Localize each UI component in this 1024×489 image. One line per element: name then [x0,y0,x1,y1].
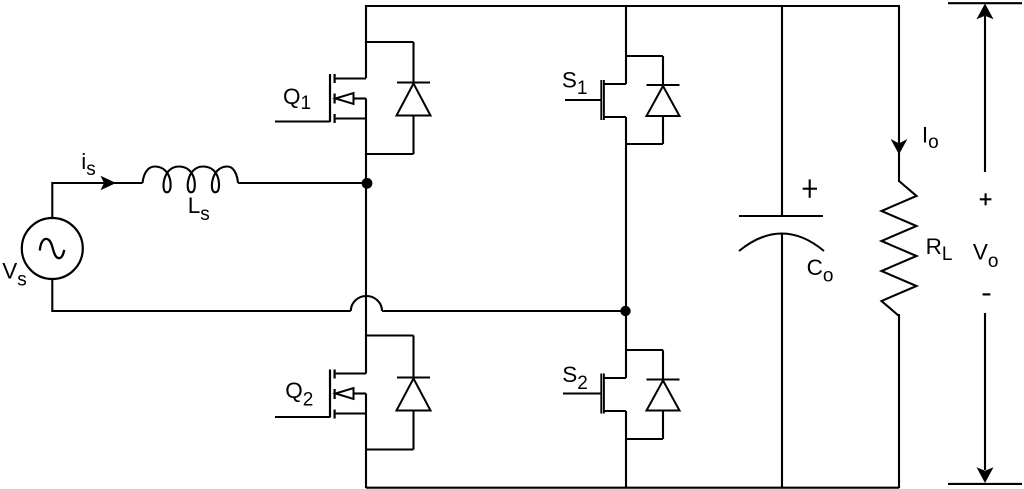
svg-text:Ls: Ls [188,193,210,225]
wire Q1 diode bottom branch [366,153,414,155]
wire Q2 source vertical [365,394,367,489]
wire inductor to node A [238,182,367,184]
wire bottom rail [366,487,899,489]
wire Q1 source vertical [365,99,367,184]
label + (Vo) [980,193,992,205]
diode D1 (Q1 body diode) [397,42,431,154]
wire RL top lead [898,5,900,182]
transistor S1 [565,80,626,120]
transistor Q2 [275,370,366,419]
wire Vs bottom lead [52,279,351,311]
transistor S2 [563,374,626,414]
svg-text:Q2: Q2 [285,378,313,411]
wire Q2 diode bottom branch [366,448,414,450]
wire hop over Q-leg [351,296,382,311]
wire S2 source vertical [625,411,627,488]
svg-text:Vs: Vs [2,259,27,291]
inductor Ls [143,167,239,193]
diode D4 (S2 body diode) [647,350,680,439]
wire Co top lead [781,5,783,216]
wire S2 diode top branch [626,349,663,351]
diode D2 (Q2 body diode) [397,336,431,450]
wire node B to S2 [625,311,627,378]
wire Q1 diode top branch [366,41,414,43]
wire S1 diode bottom branch [626,143,663,145]
diode D3 (S1 body diode) [647,56,680,144]
wire S1 source to node B [625,117,627,311]
AC source Vs [22,218,83,279]
wire Vo top bar [948,2,1022,4]
wire Q1 drain vertical [365,5,367,78]
arrow Vo up [977,4,994,20]
svg-text:Io: Io [922,122,939,153]
svg-text:is: is [81,149,96,180]
svg-text:S1: S1 [562,67,588,99]
wire Co bottom lead [781,234,783,489]
node A junction dot [362,178,373,189]
wire S1 drain vertical [625,5,627,84]
wire Q2 diode top branch [366,334,414,336]
wire Vs top lead [52,183,142,218]
svg-text:Q1: Q1 [283,84,311,114]
wire Vo bottom bar [948,483,1022,485]
wire Q2 drain vertical [365,336,367,374]
wire Vo measure line bottom [984,313,986,470]
node B junction dot [620,306,630,316]
svg-text:Co: Co [807,255,834,287]
wire S2 diode bottom branch [626,438,663,440]
capacitor Co [739,216,824,251]
label - (Vo) [983,293,991,295]
wire Vo measure line top [984,16,986,172]
wire node A to Q2 [365,183,367,336]
svg-text:S2: S2 [562,362,588,394]
arrow Io current [891,139,908,154]
svg-text:RL: RL [926,234,953,265]
arrow Vo down [977,467,994,483]
arrow is current [101,176,117,191]
transistor Q1 [275,74,366,123]
wire hop to node B [382,310,626,312]
label + (Co polarity) [803,179,817,197]
resistor RL [882,181,917,316]
wire RL bottom lead [898,314,900,488]
svg-text:Vo: Vo [973,240,999,272]
wire top rail [366,5,899,7]
wire S1 diode top branch [626,55,663,57]
